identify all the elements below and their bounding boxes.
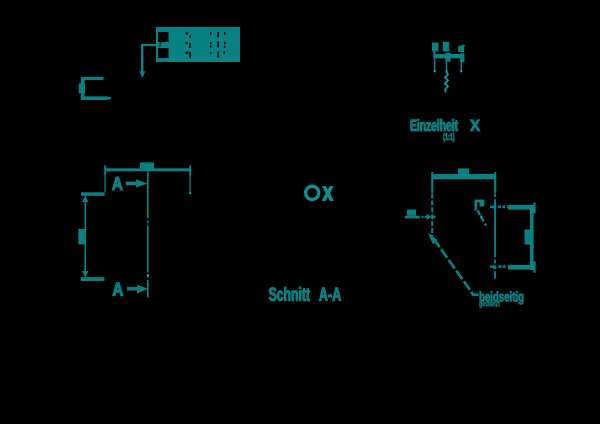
C-profile section view (top left) [79,77,111,100]
caption A-A [319,288,341,301]
right view: left extension dash-dot line [431,194,433,237]
A bottom arrow [127,285,148,294]
long diagonal leader arrowhead [428,232,438,244]
caption Einzelheit [411,119,458,131]
table row2 text marks [186,41,226,48]
section label A (top) [112,177,122,190]
leader line from table [141,44,157,72]
left view: part top edge [81,192,105,196]
left view: part bottom edge [81,277,105,281]
mid leader with arrow (right view) [475,200,485,211]
table row1 text marks [186,32,226,38]
leader arrowhead [139,71,145,78]
detail view: dimension text blobs [432,42,465,55]
left view: top dimension line [104,162,191,193]
left view: vertical dimension line [78,196,88,278]
detail boundary circle [306,186,319,199]
note line 1 [480,291,524,304]
caption scale (1:1) [444,133,455,142]
long diagonal leader line [434,239,473,294]
A top arrow [126,179,148,187]
caption Einzelheit letter X [470,120,480,131]
section label A (bottom) [113,283,123,296]
table row3 text marks [186,51,225,57]
side profile body [508,203,536,273]
right view: top edge with dimension [431,168,496,193]
right view: small dimension (left side) [405,210,435,220]
detail letter X (at circle) [323,187,333,200]
right view: right center dash-dot line [494,194,496,279]
detail view: center squiggle line [445,72,448,93]
section cut line A-A [147,171,149,297]
leader elbow to note [471,292,478,295]
caption Schnitt [269,287,310,301]
note line 2 [479,301,500,308]
tolerance table [156,27,240,62]
side profile: bottom hidden edge dots [490,265,506,269]
detail view: extension lines [434,58,462,71]
side profile: top hidden edge dots [490,205,509,209]
detail view: extension line tips [434,70,462,72]
detail view: part edge bar [433,53,464,62]
